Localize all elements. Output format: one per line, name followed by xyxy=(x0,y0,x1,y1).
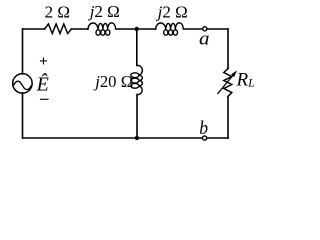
svg-text:a: a xyxy=(199,28,210,49)
svg-text:RL: RL xyxy=(236,70,256,91)
svg-text:2 Ω: 2 Ω xyxy=(45,2,70,21)
svg-text:Ê: Ê xyxy=(36,72,49,95)
svg-text:j20 Ω: j20 Ω xyxy=(93,72,133,91)
svg-text:b: b xyxy=(199,118,208,139)
svg-text:j2 Ω: j2 Ω xyxy=(88,2,120,21)
svg-text:j2 Ω: j2 Ω xyxy=(156,2,188,21)
